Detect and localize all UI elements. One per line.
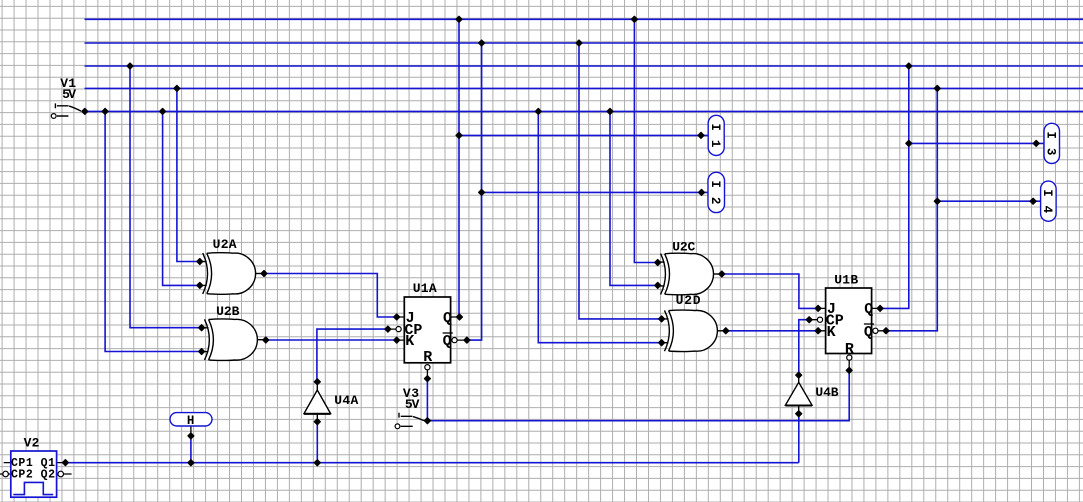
bubble U1A CP xyxy=(396,327,401,332)
pin dot U2B inB xyxy=(199,348,205,354)
wire drop to U2C input A xyxy=(634,19,657,262)
bubble V2 Q2 xyxy=(58,471,64,477)
junction bus2-QbarA xyxy=(479,40,485,46)
pin dot U1A CP xyxy=(385,326,391,332)
switch source V1 xyxy=(51,103,81,118)
wire drop to U2D input B xyxy=(538,111,661,342)
pin dot U2D inB xyxy=(659,340,665,346)
junction I1 tap xyxy=(456,132,462,138)
junction I4 tap xyxy=(934,198,940,204)
junction bus1-U2C xyxy=(631,16,637,22)
junction I3 tap xyxy=(906,140,912,146)
pin bubbles xyxy=(3,317,878,477)
probe pill I4 xyxy=(1041,181,1057,221)
junction H-bus xyxy=(188,460,194,466)
wire drop to U2C input B xyxy=(610,111,658,285)
junction bus5-U2Cb xyxy=(607,108,613,114)
pin dot U1A Q xyxy=(456,314,462,320)
pin dot U1A R xyxy=(424,376,430,382)
svg-text:R: R xyxy=(845,341,854,358)
junction bus2-U2D xyxy=(576,40,582,46)
wire bus4 y88.4 xyxy=(85,87,1083,89)
pin dot U1A J xyxy=(394,314,400,320)
wire drop to U2A input B xyxy=(163,111,200,285)
U1B pin stubs xyxy=(809,308,886,370)
V2 pin stubs xyxy=(0,463,72,474)
buffer U4B xyxy=(785,375,812,414)
svg-text:Q: Q xyxy=(443,310,452,327)
wire U1B Qbar to probe I4 xyxy=(937,200,1040,202)
wire U2B out to U1A K xyxy=(266,339,397,341)
bubble U1B Qbar xyxy=(873,328,878,333)
wire U4A in from bottom bus xyxy=(316,422,318,463)
bubble U1B CP xyxy=(817,317,822,322)
junction bus4-U2A xyxy=(174,85,180,91)
pin dot U1B R xyxy=(846,367,852,373)
svg-text:5V: 5V xyxy=(405,397,420,412)
probe pill I2 xyxy=(708,172,725,212)
wire V3 node to U1B R xyxy=(427,370,849,420)
pin dot V2 Q1 xyxy=(62,460,68,466)
pin dot U1B Qbar xyxy=(883,328,889,334)
pin dot U4A in xyxy=(314,419,320,425)
pin dot U1B Q xyxy=(877,305,883,311)
svg-text:U2D: U2D xyxy=(676,293,701,308)
pin dot U2D inA xyxy=(659,316,665,322)
pin dot U2C inA xyxy=(655,259,661,265)
clock source V2 box xyxy=(11,451,57,497)
wire bottom bus from V2 Q1 xyxy=(65,462,798,464)
bubble V2 CP2 xyxy=(3,471,9,477)
wire bus5 y111.4 xyxy=(85,110,1083,112)
svg-text:CP2 Q2: CP2 Q2 xyxy=(11,469,55,482)
xor gate U2B xyxy=(202,319,266,361)
probe H stub xyxy=(190,426,192,433)
GATES xyxy=(51,103,812,428)
wire U1A Qbar to probe I2 xyxy=(482,191,708,193)
wire U1B Q to probe I3 xyxy=(909,142,1044,144)
pin dot U1A Qbar xyxy=(464,337,470,343)
junction bus3-U2B xyxy=(127,63,133,69)
pin dot U2B inA xyxy=(199,325,205,331)
pin dot U4A out xyxy=(314,379,320,385)
pin dot U2A out xyxy=(261,270,267,276)
wire U4A out to U1A CP xyxy=(317,329,388,382)
bubble U1A R xyxy=(425,365,430,370)
JK flip-flop U1A box xyxy=(404,297,450,363)
wire U4B in from bottom bus xyxy=(798,414,800,463)
wire drop to U2B input A xyxy=(130,66,202,328)
xor gate U2D xyxy=(662,310,726,352)
junction V3-R xyxy=(424,418,430,424)
probe pill H xyxy=(170,413,212,426)
svg-text:U2C: U2C xyxy=(672,240,695,255)
wire drop to U2A input A xyxy=(177,88,200,261)
wire H probe to bottom bus xyxy=(190,436,192,463)
junction bus5-U2Db xyxy=(535,108,541,114)
probe pill I1 xyxy=(708,115,724,155)
buffer U4A xyxy=(304,382,331,422)
wire U1B Q up to bus3 xyxy=(880,66,909,308)
overline U1A Qbar xyxy=(443,332,453,334)
wire U1A Q up to bus1 xyxy=(458,19,460,317)
wire drop to U2B input B xyxy=(105,111,202,351)
pin dot U1B K xyxy=(815,328,821,334)
wire drop to U2D input A xyxy=(579,43,662,319)
svg-text:U4B: U4B xyxy=(815,385,838,400)
pin dot probe H xyxy=(188,433,194,439)
wire U1A Q to probe I1 xyxy=(459,134,708,136)
svg-text:V2: V2 xyxy=(24,435,40,450)
svg-text:Q: Q xyxy=(864,301,873,318)
pin dot U2A inB xyxy=(197,282,203,288)
svg-text:K: K xyxy=(827,324,836,341)
junction I2 tap xyxy=(479,189,485,195)
pin dot U2C inB xyxy=(655,282,661,288)
wire U4B out to U1B CP xyxy=(799,320,809,375)
xor gate U2C xyxy=(658,253,722,295)
pin dot probe I2 xyxy=(698,189,704,195)
pin dot U1B J xyxy=(815,305,821,311)
probe pill I3 xyxy=(1044,123,1060,163)
junction bus1-QA xyxy=(456,16,462,22)
svg-text:5V: 5V xyxy=(62,87,76,102)
JK flip-flop U1B box xyxy=(826,288,872,354)
U1A pin stubs xyxy=(388,317,467,379)
junction bus5-U2Bb xyxy=(102,108,108,114)
wire bus2 y43 xyxy=(85,42,1083,44)
junction bus5-V1 xyxy=(82,108,88,114)
pin dot U2B out xyxy=(263,337,269,343)
wire U1A Qbar up to bus2 xyxy=(467,43,482,340)
pin dot U4B out xyxy=(796,372,802,378)
pin dot U4B in xyxy=(796,411,802,417)
wire bus3 y66 xyxy=(85,65,1083,67)
junction bus5-U2Ab xyxy=(160,108,166,114)
svg-text:K: K xyxy=(405,333,414,350)
wire U2D out to U1B K xyxy=(726,330,818,332)
svg-text:U2B: U2B xyxy=(216,304,239,319)
pin dot U2A inA xyxy=(197,258,203,264)
pin dot U2D out xyxy=(723,328,729,334)
svg-text:Q: Q xyxy=(443,333,452,350)
svg-text:U4A: U4A xyxy=(334,393,358,408)
pin dot U1B CP xyxy=(806,317,812,323)
switch source V3 xyxy=(395,413,424,429)
svg-text:Q: Q xyxy=(864,324,873,341)
pin dot U1A K xyxy=(394,337,400,343)
bubble U1B R xyxy=(847,355,852,360)
overline U1B Qbar xyxy=(864,323,874,325)
svg-text:R: R xyxy=(423,349,432,366)
svg-text:U1A: U1A xyxy=(413,281,437,296)
wire U2C out to U1B J xyxy=(722,274,818,308)
wire U2A out to U1A J xyxy=(264,274,397,318)
svg-text:U1B: U1B xyxy=(834,273,858,288)
wire U1A R down to V3 node xyxy=(426,379,428,421)
pin dot probe I3 xyxy=(1033,140,1039,146)
wire bus1 y19.3 xyxy=(85,18,1083,20)
junction U4A-bus xyxy=(314,460,320,466)
junction bus4-QbarB xyxy=(934,85,940,91)
bubble U1A Qbar xyxy=(452,338,457,343)
clock waveform glyph xyxy=(13,482,53,494)
svg-text:H: H xyxy=(187,414,195,428)
pin dot probe I1 xyxy=(698,132,704,138)
svg-text:U2A: U2A xyxy=(213,237,237,252)
wire U1B Qbar up to bus4 xyxy=(886,88,937,330)
xor gate U2A xyxy=(200,253,263,295)
junction bus3-QB xyxy=(906,63,912,69)
pin dot probe I4 xyxy=(1030,198,1036,204)
pin dot U2C out xyxy=(719,271,725,277)
